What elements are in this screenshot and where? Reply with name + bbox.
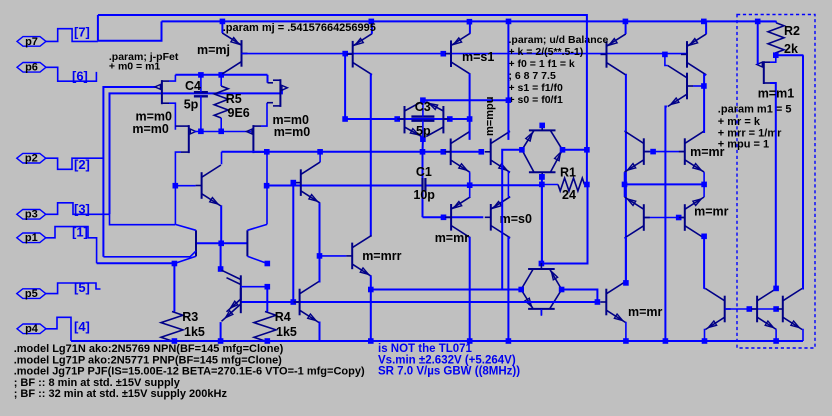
svg-text:5p: 5p [416,124,431,138]
wire mid row [625,183,705,185]
junction C4 bottom [198,129,204,135]
port p4 [17,324,46,334]
junction TL1 base pin [650,149,656,155]
wire QM emitter down [220,206,222,243]
junction C3 bottom [420,136,426,142]
wire mrr base [320,255,347,257]
resistor R3 [161,312,183,342]
transistor NPN QA [294,282,319,323]
svg-text:is NOT the TL071: is NOT the TL071 [378,343,473,355]
junction mid row right [701,182,707,188]
transistor NPN QM [196,165,221,206]
resistor R4 [254,312,276,342]
port p6 [17,63,46,73]
svg-text:+ f0 = 1 f1 = k: + f0 = 1 f1 = k [509,58,575,70]
svg-text:.param; u/d Balance: .param; u/d Balance [509,34,609,46]
junction hex1 right link [584,147,590,153]
junction hex2 right vertex [559,287,565,293]
svg-text:p1: p1 [25,232,38,244]
svg-text:10p: 10p [413,188,435,202]
wire JR2 top lead [268,82,274,84]
wire TR1 C down [703,172,705,184]
junction row152 TX [317,149,323,155]
junction Q1 emitter rail [220,19,226,25]
wire R2 top lead [758,21,776,22]
svg-text:24: 24 [562,188,576,202]
wire QA2 base bus [725,308,777,310]
junction mid row left [622,182,628,188]
junction R5 top [218,72,224,78]
junction R3 rail [172,338,178,344]
wire C4 bottom lead [200,96,202,132]
transistor hex2 bottom rotated [521,290,562,315]
wire JM1 gate wire [757,21,759,64]
wire C3 top lead [422,100,424,117]
svg-text:.model Lg71P ako:2N5771 PNP(BF: .model Lg71P ako:2N5771 PNP(BF=145 mfg=C… [14,354,282,366]
wire bus 217 [423,216,484,218]
junction row152 C3 col [420,149,426,155]
wire QM base [175,185,195,187]
wire R2 bottom lead [775,53,777,55]
svg-text:p7: p7 [25,36,38,48]
wire top base bus [242,53,688,55]
wire hex2 right vertex wire [562,290,598,303]
junction R5 bottom [218,129,224,135]
transistor NPN QO1 m=mr [600,282,625,323]
port p2 [17,153,46,163]
svg-text:.model Lg71N ako:2N5769 NPN(BF: .model Lg71N ako:2N5769 NPN(BF=145 mfg=C… [14,343,284,355]
wire Q2 emitter to rail [371,21,373,33]
wire T1 C down [469,238,472,341]
wire T1 E up [469,185,472,197]
wire TL1 E down [624,172,626,184]
wire Q6 collector junction link [703,86,705,133]
wire TX lower pin down [319,203,322,256]
svg-text:[1]: [1] [72,225,88,240]
wire TB1 E down [469,172,471,185]
junction QB base pin [747,306,753,312]
junction quad left top [218,266,224,272]
transistor PNP Q4 top right [601,34,626,75]
junction right JFET col C1 [264,183,270,189]
junction T1 C rail [467,338,473,344]
wire T2 C down [508,238,510,341]
svg-text:+ mr = k: + mr = k [718,116,761,128]
svg-text:m=mr: m=mr [690,145,725,159]
junction mrr base node [317,253,323,259]
junction QB C [773,286,779,292]
junction R1 right [584,182,590,188]
svg-text:R4: R4 [275,310,291,324]
transistor PNP T1 m=mr [445,197,470,238]
junction R4 col top [265,261,271,267]
wire Q6 emitter down long [665,107,667,342]
wire port p7 jog [46,29,98,42]
port p1 [17,233,46,243]
svg-text:[5]: [5] [74,280,90,295]
transistor PNP Q2 [347,34,372,75]
wire bus 302 [241,301,597,303]
junction QO1 E rail [623,338,629,344]
junction C3 right vertex [447,116,453,122]
junction T1 base pin [441,215,447,221]
wire port p6 jog [46,67,96,81]
svg-text:.param mj = .54157664256995: .param mj = .54157664256995 [223,22,376,34]
junction Q2 emitter rail [369,19,375,25]
svg-text:[4]: [4] [74,319,90,334]
wire rail1 drop [586,15,588,185]
wire C4 top lead [200,75,202,92]
junction TR2 base pin [676,215,682,221]
svg-text:[3]: [3] [74,202,90,217]
wire JM1 top lead [770,55,776,62]
svg-text:1k5: 1k5 [276,325,297,339]
wire Q6 base stub [693,85,704,87]
wire quad col down [220,243,223,269]
transistor NPN TX [295,162,320,203]
svg-text:m=mr: m=mr [628,305,663,319]
wire Q1 collector down [220,74,222,75]
transistor PNP T2 m=s0 [485,197,510,238]
svg-text:m=m0: m=m0 [132,122,169,136]
junction Q3 collector C3 row [467,116,473,122]
junction QA2 E rail [702,338,708,344]
wire p7 horizontal [98,21,162,40]
wire Q2 collector down long [371,75,372,237]
wire V+ rail 1 [98,14,587,16]
wire p7 feed vertical [97,15,99,41]
wire QC C up [801,55,804,288]
wire R5 bottom lead [220,118,222,131]
wire T2 E up [508,196,510,198]
wire TX base col down [292,183,294,302]
junction row152 right JFET col [264,149,270,155]
svg-text:.param m1 = 5: .param m1 = 5 [718,104,792,116]
wire C3 row [345,118,470,120]
svg-text:m=mrr: m=mrr [362,249,401,263]
wire row 152 [222,151,482,153]
wire hex2 bottom stub [540,309,542,316]
wire T2R diag up [247,224,267,230]
jfet m=m1 [757,61,770,84]
svg-text:p2: p2 [25,153,38,165]
wire T2R diag down [247,256,267,263]
wire p2 to JFET gate [103,87,157,257]
junction mpu node [506,97,512,103]
wire quad E down [220,322,222,341]
svg-text:C3: C3 [415,100,431,114]
transistor NPN TB2 m=mpu [485,131,510,172]
wire port p3 jog [46,203,110,215]
svg-text:R2: R2 [784,24,800,38]
svg-text:; 6 8 7 7.5: ; 6 8 7 7.5 [509,70,556,82]
transistor PNP Q1 m=mj [222,33,247,74]
transistor NPN Q6 [668,66,693,107]
wire TL2 E up [624,184,626,197]
dashed box [737,15,815,349]
transistor NPN TR1 [679,131,704,172]
wire Q5 collector down [704,75,706,86]
wire JFET gate row [194,131,251,133]
transistor NPN TL1 m=mr [625,131,650,172]
capacitor C1 [421,178,423,192]
wire row 217.5 right [644,217,685,219]
wire JR1 top lead [261,103,267,126]
wire R4 zig start [266,287,268,312]
wire C3 top to mpu node [423,99,508,101]
junction hex2 left vertex [518,287,524,293]
junction rail2 mpu [506,19,512,25]
jfet lower-left m=m0 [181,125,196,153]
wire QMRR E down [370,276,373,341]
svg-text:[7]: [7] [74,25,90,40]
transistor NPN T2L [195,230,197,256]
junction hex2 top [539,261,545,267]
wire Q3 collector down [469,74,471,140]
junction QO1 C [623,280,629,286]
svg-text:m=m1: m=m1 [758,87,795,101]
junction TB2 base pin [479,149,485,155]
wire R3 zig start [173,264,175,312]
transistor NPN QMRR m=mrr [346,235,371,276]
transistor NPN QC [777,289,802,330]
wire QO1 E down [625,323,627,342]
port p7 [17,37,46,47]
svg-text:m=s0: m=s0 [500,212,532,226]
junction C4 top [198,72,204,78]
svg-text:R1: R1 [560,166,576,180]
wire mpu node down [507,100,509,140]
junction Q4 emitter rail [623,19,629,25]
transistor PNP Q5 top right2 [681,34,706,75]
junction long col rail [663,338,669,344]
svg-text:+ mrr = 1/mr: + mrr = 1/mr [718,128,782,140]
wire rail2 to mpu node [507,21,509,100]
wire JL1 bottom lead [175,152,181,224]
wire port p4 jog [46,317,71,341]
svg-text:m=mr: m=mr [694,204,729,218]
junction R1 left a [539,174,545,180]
wire QO1 C up [625,282,627,283]
capacitor C4 [194,91,208,93]
resistor R2 [768,23,784,53]
svg-text:[2]: [2] [74,157,90,172]
wire TL1 C up [625,130,626,132]
junction hex1 right vertex [560,147,566,153]
jfet lower-right m=m0 [246,125,261,153]
svg-text:m=s1: m=s1 [462,50,494,64]
wire JR2 bottom lead [267,102,273,104]
wire hex1 right vertex [563,149,587,151]
jfet upper-right m=m0 [273,79,287,107]
transistor NPN TB1 [445,131,470,172]
junction C1 right node [467,182,473,188]
wire top node right drop [267,75,269,83]
svg-text:p4: p4 [25,323,39,335]
wire PNP Q2 base drop [344,54,346,119]
svg-text:2k: 2k [784,42,798,56]
junction Q5 emitter rail [701,19,707,25]
junction T2 C rail [506,338,512,344]
wire C1 left lead [267,185,422,187]
wire NPN Q6 collector link [665,54,668,65]
svg-text:m=mj: m=mj [197,43,230,57]
wire TR1 E up [703,131,705,133]
transistor hex1 top rotated [522,124,563,149]
wire R1 right down [541,185,587,264]
junction Q3 emitter rail [467,19,473,25]
transistor NPN TL2 [625,197,650,238]
wire JL1 top lead [175,125,181,127]
transistor NPN T2R [246,230,248,256]
wire QB E down [775,330,777,342]
junction C3 left vertex [394,116,400,122]
wire QC E down [801,330,804,342]
junction TB1 base pin [441,149,447,155]
capacitor C3 [411,115,434,117]
junction QO1 base [595,299,601,305]
wire p1 to R3 col [97,262,175,264]
svg-text:1k5: 1k5 [184,325,205,339]
svg-text:Vs.min ±2.632V (+5.264V): Vs.min ±2.632V (+5.264V) [378,354,516,366]
wire npn-mid C corner [221,152,223,165]
junction QC base pin [773,306,779,312]
junction hexagon2 wire [368,287,374,293]
junction hex1 top pin [539,123,545,129]
transistor hex1 bottom rotated [522,150,563,178]
wire Q5 emitter to rail [705,21,707,34]
svg-text:p3: p3 [25,209,38,221]
junction C3 top [420,97,426,103]
wire row 151.6 right [644,151,685,153]
wire TB2 C up [508,131,510,140]
wire QA2 C up [704,288,705,290]
junction R2 top [755,19,761,25]
transistor quad cross [222,270,241,321]
svg-text:; BF :: 32 min at std. ±15V su: ; BF :: 32 min at std. ±15V supply 200kH… [14,388,228,400]
svg-text:; BF :: 8 min at std. ±15V sup: ; BF :: 8 min at std. ±15V supply [14,377,181,389]
wire V+ rail 2 [162,20,776,22]
junction mrr E rail [368,338,374,344]
wire QB C up [775,288,777,290]
junction QM base [173,183,179,189]
resistor R5 [214,86,228,118]
junction R3 col top [172,261,178,267]
port p5 [17,289,46,299]
wire hexagon2 left wire [371,289,521,291]
junction TX base pin [291,180,297,186]
wire p3 to JFET gate [110,89,282,214]
wire TB1 C up [469,131,471,140]
junction QB E rail [773,338,779,344]
wire JR1 bottom lead [261,152,267,224]
junction C3 row left [342,116,348,122]
wire T2L diag down [174,256,196,263]
wire TR2 C down [703,238,705,289]
wire port p5 jog [46,283,101,294]
junction R1 left b [539,182,545,188]
wire TX C lead [319,152,321,162]
svg-text:+ mpu = 1: + mpu = 1 [718,139,769,151]
wire port p1 jog [46,227,97,264]
svg-text:+ m0 = m1: + m0 = m1 [109,61,161,73]
jfet upper-left m=m0 [155,80,169,104]
junction hex1 left vertex [519,147,525,153]
wire Q4 collector down long [625,75,627,283]
wire port p2 jog [46,158,104,169]
port p3 [17,210,46,220]
wire Q3 emitter to rail [469,22,471,34]
wire JM1 bottom lead [770,83,776,288]
wire TL2 C down [625,238,626,283]
svg-text:5p: 5p [184,98,199,112]
wire R2 bottom right [776,54,804,56]
wire T2L T2R base [196,242,247,244]
transistor hex2 top rotated [521,263,562,290]
wire hex2 top col [541,184,543,263]
wire C1 right lead [426,185,469,187]
wire JL2 top lead [169,75,175,81]
svg-text:R5: R5 [226,92,242,106]
svg-text:+ k = 2/(5**.5-1): + k = 2/(5**.5-1) [509,46,584,58]
wire R5 top lead [220,75,222,86]
junction R4 col mid [265,284,271,290]
svg-text:m=mpu: m=mpu [484,97,496,136]
transistor NPN QA2 bottom right [705,289,730,330]
svg-text:9E6: 9E6 [228,106,250,120]
wire Q1 emitter to rail [221,21,223,33]
wire QA2 E down [704,330,707,342]
wire QA C up [318,256,321,282]
wire hex1 left vertex [502,150,522,290]
wire R1 left lead [542,184,558,186]
svg-text:C1: C1 [416,165,432,179]
junction TR2 C mid [701,234,707,240]
transistor QC3L rotated [397,102,422,137]
svg-text:.model Jg71P PJF(IS=15.00E-12: .model Jg71P PJF(IS=15.00E-12 BETA=270.1… [14,366,365,378]
resistor R1 [558,178,585,191]
wire bottom rail [71,340,803,342]
wire TR2 E up [703,184,705,197]
svg-text:C4: C4 [185,79,201,93]
svg-text:m=m0: m=m0 [274,125,311,139]
svg-text:m=mr: m=mr [435,231,470,245]
wire quad base right [241,286,267,288]
transistor NPN TR2 [679,197,704,238]
junction base bus at Q2 [342,51,348,57]
wire QA E down [318,323,321,342]
svg-text:R3: R3 [182,310,198,324]
wire JFET top node [175,74,267,76]
transistor PNP Q3 m=s1 [445,33,470,74]
junction NPN A base pin [291,299,297,305]
junction base bus at Q3 [441,51,447,57]
wire C3 bottom lead [422,120,424,139]
svg-text:p5: p5 [25,288,38,300]
wire TB2 E down [508,172,510,196]
wire p2 to T2L [103,251,196,257]
svg-text:+ s0 = f0/f1: + s0 = f0/f1 [509,94,563,106]
wire Q4 emitter to rail [625,21,627,34]
wire hex1 bottom pin [541,178,543,263]
wire T2L diag up [175,224,196,230]
wire R1 right lead [585,184,587,186]
junction quad E rail [218,338,224,344]
svg-text:SR 7.0 V/µs GBW ((8MHz)): SR 7.0 V/µs GBW ((8MHz)) [378,366,520,378]
transistor QC3R rotated [426,102,450,137]
wire p3 lower run [110,214,176,224]
svg-text:p6: p6 [25,62,38,74]
